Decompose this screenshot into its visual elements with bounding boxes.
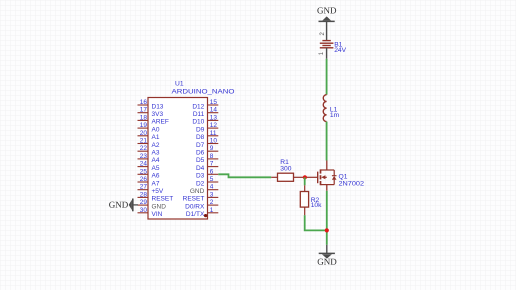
svg-text:GND: GND [317, 257, 337, 267]
svg-text:A7: A7 [152, 180, 160, 187]
svg-text:22: 22 [140, 145, 148, 152]
svg-text:10: 10 [210, 138, 218, 145]
svg-text:30: 30 [140, 207, 148, 214]
svg-text:D9: D9 [196, 126, 205, 133]
inductor L1 reference label [330, 107, 338, 114]
svg-text:A3: A3 [152, 150, 160, 157]
svg-text:D2: D2 [196, 180, 205, 187]
svg-text:12: 12 [210, 122, 218, 129]
U1 pin 1 D1/TX unconnected marker dot [204, 214, 207, 217]
svg-text:20: 20 [140, 130, 148, 137]
battery B1 pin 2 number [320, 32, 326, 36]
battery B1 reference label [334, 42, 342, 49]
U1 left pin stubs (pins 16-30) [138, 105, 149, 213]
svg-text:4: 4 [210, 184, 214, 191]
U1 reference designator label U1 [175, 81, 184, 88]
U1 right pin stubs (pins 15-1) [208, 105, 219, 213]
svg-text:GND: GND [152, 203, 167, 210]
svg-text:24: 24 [140, 161, 148, 168]
svg-text:AREF: AREF [152, 119, 169, 126]
svg-text:1m: 1m [330, 112, 340, 119]
svg-text:15: 15 [210, 99, 218, 106]
svg-text:D5: D5 [196, 157, 205, 164]
svg-text:D13: D13 [152, 103, 164, 110]
junction node at Q1 source / R2 return [325, 228, 329, 232]
svg-text:D1/TX: D1/TX [186, 211, 205, 218]
svg-text:24V: 24V [334, 47, 346, 54]
wire Q1 source down to bottom ground [326, 191, 328, 245]
transistor Q1 2N7002 symbol [305, 161, 337, 191]
svg-text:GND: GND [190, 188, 205, 195]
svg-text:11: 11 [210, 130, 217, 137]
svg-text:D7: D7 [196, 142, 205, 149]
U1 right pin numbers 15-1 [210, 99, 218, 214]
svg-text:26: 26 [140, 176, 148, 183]
transistor Q1 reference label [339, 174, 348, 181]
svg-text:D12: D12 [192, 103, 204, 110]
svg-text:D0/RX: D0/RX [185, 203, 205, 210]
resistor R1 pins [271, 176, 305, 178]
svg-text:19: 19 [140, 122, 148, 129]
svg-text:RESET: RESET [183, 196, 205, 203]
svg-text:16: 16 [140, 99, 148, 106]
svg-text:A2: A2 [152, 142, 160, 149]
svg-text:17: 17 [140, 107, 148, 114]
svg-text:A0: A0 [152, 126, 160, 133]
svg-text:13: 13 [210, 114, 218, 121]
inductor L1 coil [323, 95, 326, 122]
svg-text:A5: A5 [152, 165, 160, 172]
svg-text:6: 6 [210, 168, 214, 175]
svg-text:D10: D10 [192, 119, 204, 126]
svg-text:A6: A6 [152, 173, 160, 180]
U1 value label ARDUINO_NANO [172, 89, 235, 96]
svg-text:GND: GND [109, 200, 129, 210]
svg-text:D8: D8 [196, 134, 205, 141]
battery B1 plates [320, 41, 334, 48]
battery B1 pin 1 stub and number [319, 48, 327, 59]
svg-text:29: 29 [140, 199, 148, 206]
svg-text:8: 8 [210, 153, 214, 160]
svg-text:1: 1 [210, 207, 214, 214]
svg-text:7: 7 [210, 161, 214, 168]
ground flag GND at bottom [317, 245, 337, 267]
svg-text:14: 14 [210, 107, 218, 114]
svg-text:D3: D3 [196, 173, 205, 180]
svg-text:18: 18 [140, 114, 148, 121]
U1 left pin names D13..VIN [152, 103, 174, 218]
svg-text:RESET: RESET [152, 196, 174, 203]
svg-text:U1: U1 [175, 81, 184, 88]
svg-text:9: 9 [210, 145, 214, 152]
svg-text:D6: D6 [196, 150, 205, 157]
resistor R2 value label 10k [311, 202, 322, 209]
svg-text:23: 23 [140, 153, 148, 160]
svg-text:3: 3 [210, 191, 214, 198]
U1 left pin numbers 16-30 [140, 99, 148, 214]
resistor R1 reference label [280, 159, 289, 166]
svg-text:21: 21 [140, 138, 148, 145]
resistor R2 body [300, 192, 308, 208]
svg-text:27: 27 [140, 184, 148, 191]
wire B1 to L1 [326, 59, 328, 95]
svg-text:D4: D4 [196, 165, 205, 172]
inductor L1 value label 1m [330, 112, 340, 119]
svg-text:300: 300 [280, 166, 291, 173]
svg-text:A4: A4 [152, 157, 160, 164]
resistor R2 pins [304, 185, 306, 215]
svg-text:A1: A1 [152, 134, 160, 141]
svg-text:5: 5 [210, 176, 214, 183]
resistor R2 reference label [311, 197, 320, 204]
transistor Q1 value label 2N7002 [339, 180, 365, 187]
ground flag GND at top (net GND) [317, 5, 337, 40]
wire junction down to R2 [304, 177, 306, 185]
svg-text:GND: GND [317, 5, 337, 15]
svg-text:D11: D11 [193, 111, 205, 118]
ground flag GND at U1 pin 29 [109, 199, 138, 212]
IC U1 body box [148, 98, 208, 220]
junction node at R1 / Q1 gate / R2 [303, 175, 307, 179]
resistor R1 body [278, 173, 294, 181]
battery B1 value label 24V [334, 47, 346, 54]
wire L1 to Q1 drain [326, 122, 328, 161]
svg-text:ARDUINO_NANO: ARDUINO_NANO [172, 89, 235, 96]
svg-text:2: 2 [210, 199, 214, 206]
svg-text:28: 28 [140, 191, 148, 198]
svg-text:25: 25 [140, 168, 148, 175]
U1 right pin names D12..D1/TX [183, 103, 205, 218]
svg-text:2N7002: 2N7002 [339, 180, 365, 187]
svg-text:VIN: VIN [152, 211, 163, 218]
svg-text:3V3: 3V3 [152, 111, 164, 118]
resistor R1 value label 300 [280, 166, 291, 173]
wire U1 pin D3 to R1 [218, 174, 271, 177]
svg-text:+5V: +5V [152, 188, 164, 195]
svg-text:10k: 10k [311, 202, 322, 209]
wire R2 bottom to source net [305, 215, 327, 230]
